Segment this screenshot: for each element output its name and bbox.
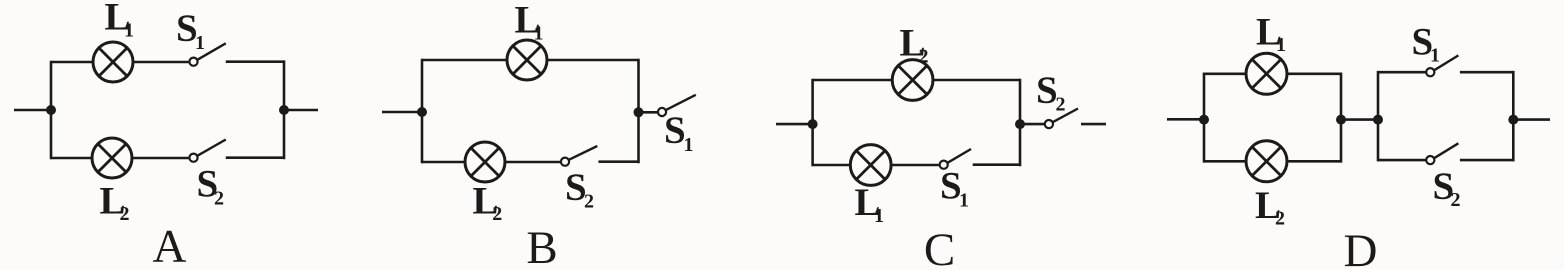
label S1 (circuit C) bbox=[940, 165, 969, 212]
node: left junction B bbox=[417, 107, 427, 117]
wire: switch S2 to right vertical D bbox=[1460, 159, 1513, 162]
svg-text:C: C bbox=[924, 224, 955, 270]
wire: junction to switch S2 C bbox=[1020, 123, 1045, 126]
lamp L1 (circuit D) bbox=[1246, 53, 1287, 94]
wire: left vertical A bbox=[50, 61, 53, 160]
wire: lamp L1 to switch S1 A bbox=[133, 61, 189, 64]
wire: right vertical B bbox=[637, 59, 640, 164]
wire: right vertical D bbox=[1512, 71, 1515, 161]
switch S2 (circuit C) bbox=[1045, 109, 1078, 129]
wire: left input stub C bbox=[776, 123, 813, 126]
node: right junction D bbox=[1508, 115, 1518, 125]
svg-text:1: 1 bbox=[874, 205, 884, 227]
wire: lamp-box right vertical D bbox=[1340, 73, 1343, 163]
label L2 (circuit D) bbox=[1255, 184, 1285, 230]
wire: lamp L1 to right vertical B bbox=[547, 59, 639, 62]
svg-text:S: S bbox=[1036, 69, 1058, 112]
svg-text:1: 1 bbox=[959, 189, 969, 211]
wire: lamp L2 to switch S2 B bbox=[505, 161, 561, 164]
svg-text:1: 1 bbox=[684, 134, 694, 156]
label L2 (circuit C) bbox=[900, 21, 929, 67]
wire: left vertical C bbox=[811, 79, 814, 167]
node: left junction D bbox=[1199, 115, 1209, 125]
label L1 (circuit C) bbox=[855, 181, 885, 227]
svg-text:S: S bbox=[664, 109, 686, 152]
label S1 (circuit A) bbox=[176, 7, 205, 54]
wire: left input stub B bbox=[382, 111, 422, 114]
label L1 (circuit D) bbox=[1256, 10, 1286, 56]
wire: switch S2 to right vertical B bbox=[599, 160, 639, 163]
svg-text:2: 2 bbox=[584, 191, 594, 213]
svg-text:1: 1 bbox=[534, 23, 544, 45]
lamp L1 (circuit C) bbox=[850, 145, 891, 186]
switch S1 (circuit A) bbox=[189, 43, 225, 66]
label L2 (circuit A) bbox=[100, 179, 130, 225]
switch S2 (circuit D) bbox=[1426, 143, 1458, 164]
switch S1 (circuit B) bbox=[658, 95, 696, 116]
wire: middle link D bbox=[1341, 118, 1378, 121]
wire: lamp L1 to middle vertical D bbox=[1287, 73, 1341, 76]
wire: top-left segment A bbox=[51, 61, 94, 64]
wire: left input stub A bbox=[14, 109, 51, 112]
label L2 (circuit B) bbox=[473, 179, 503, 225]
wire: right vertical C bbox=[1019, 79, 1022, 167]
wire: bottom-left segment B bbox=[422, 161, 466, 164]
svg-text:2: 2 bbox=[492, 203, 502, 225]
svg-text:1: 1 bbox=[1276, 34, 1286, 56]
svg-text:1: 1 bbox=[195, 32, 205, 54]
svg-text:A: A bbox=[153, 221, 187, 270]
wire: left vertical D bbox=[1203, 73, 1206, 163]
wire: bottom-left segment D bbox=[1204, 160, 1247, 163]
node: right junction A bbox=[279, 105, 289, 115]
wire: top-left segment C bbox=[813, 79, 893, 82]
wire: switch S1 to right vertical A bbox=[226, 60, 284, 63]
node: left junction C bbox=[808, 119, 818, 129]
wire: lamp L2 to right vertical C bbox=[933, 79, 1020, 82]
lamp L2 (circuit A) bbox=[92, 138, 132, 178]
wire: top-left segment D bbox=[1204, 73, 1247, 76]
switch S1 (circuit D) bbox=[1426, 55, 1458, 76]
lamp L1 (circuit B) bbox=[507, 40, 547, 80]
wire: lamp L1 to switch S1 C bbox=[891, 164, 940, 167]
label L1 (circuit A) bbox=[105, 0, 135, 42]
wire: switch-box top-left segment D bbox=[1378, 71, 1426, 74]
svg-text:1: 1 bbox=[1430, 45, 1440, 67]
wire: switch-box bottom-left segment D bbox=[1378, 159, 1426, 162]
node: middle junction left D bbox=[1336, 115, 1346, 125]
wire: switch S2 to right vertical A bbox=[226, 156, 284, 159]
lamp L1 (circuit A) bbox=[93, 42, 133, 82]
switch S1 (circuit C) bbox=[940, 149, 971, 169]
lamp L2 (circuit B) bbox=[465, 142, 505, 182]
svg-text:2: 2 bbox=[214, 188, 224, 210]
wire: right output stub A bbox=[284, 109, 318, 112]
node: output junction B bbox=[634, 107, 644, 117]
wire: lamp L2 to switch S2 A bbox=[132, 157, 189, 160]
switch S2 (circuit A) bbox=[189, 140, 225, 162]
label S2 (circuit D) bbox=[1433, 165, 1461, 211]
label S1 (circuit B) bbox=[664, 109, 694, 156]
svg-text:B: B bbox=[526, 222, 557, 270]
wire: left vertical B bbox=[421, 59, 424, 164]
lamp L2 (circuit D) bbox=[1246, 141, 1287, 182]
wire: lamp L2 to middle vertical D bbox=[1287, 160, 1341, 163]
wire: right output stub D bbox=[1513, 118, 1550, 121]
svg-text:D: D bbox=[1344, 225, 1378, 270]
wire: junction to switch S1 B bbox=[639, 111, 659, 114]
svg-text:2: 2 bbox=[1451, 189, 1461, 211]
label S1 (circuit D) bbox=[1412, 20, 1441, 66]
svg-text:2: 2 bbox=[120, 203, 130, 225]
label S2 (circuit C) bbox=[1036, 69, 1066, 116]
node: output junction C bbox=[1015, 119, 1025, 129]
label L1 (circuit B) bbox=[515, 0, 544, 45]
svg-text:2: 2 bbox=[1275, 208, 1285, 230]
lamp L2 (circuit C) bbox=[892, 60, 933, 101]
node: middle junction right D bbox=[1373, 115, 1383, 125]
wire: switch S1 to right vertical D bbox=[1460, 71, 1513, 74]
svg-text:1: 1 bbox=[124, 20, 134, 42]
wire: left input stub D bbox=[1167, 118, 1204, 121]
wire: bottom-left segment C bbox=[813, 164, 851, 167]
wire: switch S1 to right vertical C bbox=[973, 163, 1020, 166]
wire: switch-box left vertical D bbox=[1377, 71, 1380, 161]
label S2 (circuit B) bbox=[565, 166, 594, 213]
wire: right output dash C bbox=[1081, 123, 1106, 126]
wire: top-left segment B bbox=[422, 59, 508, 62]
switch S2 (circuit B) bbox=[561, 146, 597, 166]
node: left junction A bbox=[46, 105, 56, 115]
svg-text:2: 2 bbox=[1056, 94, 1066, 116]
wire: right vertical A bbox=[283, 60, 286, 159]
wire: bottom-left segment A bbox=[51, 157, 93, 160]
svg-text:2: 2 bbox=[919, 45, 929, 67]
label S2 (circuit A) bbox=[197, 163, 225, 210]
